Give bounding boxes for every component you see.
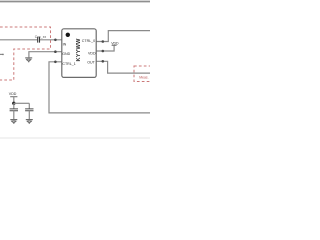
svg-text:OUT: OUT — [87, 60, 95, 64]
svg-text:GND: GND — [62, 52, 70, 56]
node OUT pin dot — [102, 60, 105, 63]
node CTRL_1 pin dot — [54, 61, 57, 64]
svg-text:VDD: VDD — [88, 51, 96, 55]
wire CTRL_0 net (routes up then to right edge) — [96, 31, 150, 42]
pin 1 marker dot — [66, 33, 70, 37]
node VDD junction — [12, 102, 15, 105]
svg-text:Cxx_xx: Cxx_xx — [35, 35, 47, 39]
power VDD (bottom left) — [10, 96, 17, 98]
node IN pin dot — [54, 39, 57, 42]
node CTRL_0 pin dot — [102, 40, 105, 43]
figure bottom faint line — [0, 137, 150, 139]
wire OUT net (to measurement box) — [96, 61, 150, 73]
ground (C1) — [10, 120, 17, 124]
svg-text:IN: IN — [63, 42, 67, 46]
IC U1 body — [62, 29, 96, 78]
wire CTRL_1 net (routes below chip to right edge) — [49, 62, 150, 113]
wire VDD pin net — [96, 45, 114, 51]
svg-text:CTRL_0: CTRL_0 — [82, 39, 95, 43]
capacitor C2 (bypass) — [28, 103, 30, 109]
figure top border line — [0, 1, 150, 3]
capacitor C1 (bypass) — [13, 103, 15, 109]
wire stub (left edge) — [0, 53, 3, 55]
wire IN net (left) — [0, 39, 62, 41]
node GND pin dot — [54, 50, 57, 53]
svg-text:VDD: VDD — [111, 41, 119, 45]
power VDD (right) — [112, 44, 117, 46]
red dashed region (input side, L-shaped) — [0, 27, 51, 80]
wire to second cap — [14, 102, 29, 104]
node VDD pin dot — [102, 50, 105, 53]
ground (C2) — [26, 120, 33, 124]
svg-text:CTRL_1: CTRL_1 — [62, 62, 75, 66]
capacitor (series, on IN line) — [38, 37, 40, 43]
svg-text:KYYWW: KYYWW — [76, 38, 82, 61]
red dashed box (measurement, right edge) — [134, 66, 156, 82]
svg-text:Meas.: Meas. — [139, 75, 148, 79]
wire GND net — [29, 52, 62, 58]
ground (GND pin) — [25, 58, 32, 62]
svg-text:VDD: VDD — [9, 92, 17, 96]
